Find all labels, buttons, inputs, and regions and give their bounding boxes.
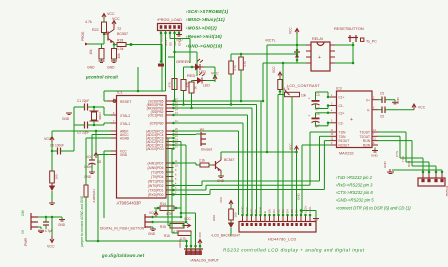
ground prog_load [176,35,182,37]
crystal Q1 4MHz [92,112,97,120]
svg-text:D0: D0 [168,42,172,46]
svg-text:24V: 24V [21,209,25,216]
SECTION: rs232 connector [383,161,448,197]
svg-text:VCC: VCC [47,245,55,249]
right pins T1OUT T2OUT R1IN R2IN [372,131,378,133]
resistor R10 4.7k [278,80,282,90]
svg-text:VCC: VCC [418,106,426,110]
svg-text:GND: GND [176,38,184,42]
svg-text:10k: 10k [301,94,307,98]
svg-text:VCC: VCC [219,196,223,203]
svg-text:›GND->GND(19): ›GND->GND(19) [186,43,223,48]
svg-text:VCC: VCC [44,137,52,141]
wire R1 bottom to bus [174,90,176,102]
svg-text:D2: D2 [277,209,281,213]
svg-text:GND: GND [148,232,156,236]
capacitor C10 4.7uF [43,222,49,225]
svg-text:›Reset->Init(16): ›Reset->Init(16) [186,34,222,39]
svg-text:R1OUT: R1OUT [339,139,350,143]
svg-text:+: + [308,97,310,101]
ground max232 pin15 [374,148,376,151]
wire R1IN to connector rxd [378,140,412,142]
svg-text:TXD: TXD [401,155,405,162]
svg-text:GND: GND [107,66,115,70]
svg-text:10k: 10k [117,53,121,59]
SECTION: bottom-left power [21,125,187,249]
svg-text:VCC: VCC [289,143,293,150]
svg-text:›RCTL: ›RCTL [265,39,276,43]
resistor R16 4.7k [178,231,191,236]
switch S1 reset button [348,35,358,42]
SECTION: prog_load header [157,18,197,101]
wire r14 net jog to analog [181,212,196,214]
ground push button [151,226,153,228]
svg-text:RESET: RESET [120,100,131,104]
wire TXD from mcu to T1IN [174,189,207,191]
svg-text:RED: RED [187,73,196,78]
svg-text:(INT0)PD2: (INT0)PD2 [148,184,164,188]
wire button to relai right [352,42,354,45]
svg-text:(AIN0)PD6: (AIN0)PD6 [148,166,164,170]
LED green D1 [192,64,204,70]
svg-text:+: + [350,117,353,123]
svg-text:BC557: BC557 [117,32,128,36]
wire VCC1 to R22 [103,19,105,22]
connector X2 PWR [31,213,38,230]
svg-text:R15: R15 [160,225,166,229]
wire 0v to gnd [0,0,1,1]
svg-text:1k: 1k [194,86,198,90]
svg-text:LCD_CONTRAST: LCD_CONTRAST [287,84,320,88]
wire R15 left to pc [168,225,170,227]
svg-text:VCC: VCC [198,231,202,238]
ground under R27 [111,61,117,63]
svg-text:GND: GND [120,153,128,157]
resistor R3 470 [189,82,194,93]
left pins C1+ C1- C2+ C2- [331,96,337,98]
svg-text:GREEN: GREEN [176,59,190,64]
wire rctl [267,44,297,46]
svg-text:›SCK->STROBE(1): ›SCK->STROBE(1) [186,9,229,14]
svg-text:R2OUT: R2OUT [339,144,350,148]
ground bc547 [220,173,222,176]
svg-text:›MOSI->D0(2): ›MOSI->D0(2) [186,25,217,30]
svg-text:GND: GND [396,97,400,105]
resistor R12 pull-up [239,57,244,70]
svg-text:C5: C5 [380,92,384,96]
svg-text:GND: GND [371,154,379,158]
wire jp1 nets [174,134,197,136]
svg-text:180: 180 [55,174,59,179]
wire PB0 corner [174,122,244,124]
IC IC1 AT90S4433P body [117,96,167,199]
svg-text:D4: D4 [286,209,290,213]
supply VCC relai [295,29,299,36]
SECTION: green annotation list top [186,9,229,48]
pin XTAL2 [111,114,117,116]
wire caps to gnd [74,106,85,108]
SECTION: captions [101,175,411,258]
capacitor C9 100nF [58,148,61,155]
SECTION: crystal [62,99,111,135]
pin stubs [423,172,442,178]
wire pin5 to gnd [178,31,180,35]
ground avcc [89,172,95,174]
jumper JP2 agnd [86,137,111,139]
svg-text:C1+: C1+ [339,96,345,100]
svg-text:GND: GND [62,117,70,121]
svg-text:0V: 0V [21,229,25,234]
wire pin4 init down to pb5 row [174,31,176,102]
svg-text:D5: D5 [290,209,294,213]
capacitor C3 1uF electrolytic [312,100,320,102]
svg-text:(TXD)PD1: (TXD)PD1 [148,189,163,193]
supply VCC arrow 2 [112,21,116,28]
connector LCD1 HD44780 body [239,222,316,233]
svg-text:JP1: JP1 [199,128,205,132]
svg-text:C2-: C2- [339,121,344,125]
wire PB1 corner [174,114,248,116]
svg-text:VCC: VCC [272,66,276,73]
pin VCC [111,150,117,152]
wire pot left down to lcd [278,94,280,96]
svg-text:470: 470 [168,82,172,87]
wire collector to rctl [220,152,222,157]
resistor R19 180 [50,171,55,183]
wire RXD to mcu from R1OUT [174,194,211,196]
svg-text:+: + [318,55,321,61]
svg-text:LED+: LED+ [304,205,308,213]
supply VCC down arrow [50,236,54,243]
resistor R22 4.7k [102,22,107,33]
wire bottom gnd from pwr pin3 [38,226,41,228]
wire PC5 corner [174,130,239,132]
svg-text:R28: R28 [117,39,123,43]
resistor R27 10k below emitter [112,49,117,60]
ground under R26 [99,61,105,63]
svg-text:Unused: Unused [201,148,212,152]
wire R3 bottom to bus [191,93,193,108]
ground max232 c5 [392,102,398,104]
svg-text:4.7k: 4.7k [85,20,92,24]
svg-text:PWR: PWR [24,238,28,246]
svg-text:GND: GND [383,161,387,169]
wire relai left pin2 long down [263,62,306,64]
svg-text:V-: V- [367,108,370,112]
right pins V+ V- [372,99,378,101]
svg-text:C2+: C2+ [339,111,345,115]
svg-text:R1IN: R1IN [363,139,371,143]
SECTION: max232 [174,87,437,216]
wire xtal1 net [88,124,105,126]
svg-text:C3: C3 [316,93,320,97]
supply VCC mid-left with 100nF [50,137,54,144]
svg-text:(RXD)PD0: (RXD)PD0 [148,193,164,197]
svg-text:›CTS->RS232 pin 8: ›CTS->RS232 pin 8 [336,190,373,195]
svg-text:LED: LED [199,70,206,74]
svg-text:10k: 10k [89,49,93,55]
wire PB4 corner [256,105,258,216]
SECTION: mcu [107,91,178,206]
svg-text:›MISO->Busy(11): ›MISO->Busy(11) [186,17,225,22]
svg-text:GND: GND [58,223,66,227]
resistor R14 4.7k [160,206,174,211]
pin XTAL1 [111,122,117,124]
svg-text:GND: GND [217,179,225,183]
svg-text:VCC: VCC [184,217,191,221]
svg-text:(T0)PD4: (T0)PD4 [151,175,164,179]
IC IC2 RELAI optocoupler [311,42,330,71]
resistor R20 180 backlight [229,209,234,220]
pin AREF [111,130,117,132]
transistor T2 BC557 [107,32,109,41]
wire PB5 corner [260,101,262,215]
svg-text:BC547: BC547 [224,158,234,162]
ground rs232 [387,169,394,174]
svg-text:VCC: VCC [112,17,120,21]
wire pin1 strobe down to pad [160,31,162,63]
svg-text:(INT1)PD3: (INT1)PD3 [148,180,164,184]
svg-text:RELAI: RELAI [312,37,323,41]
SECTION: analog / buttons [100,128,268,263]
wire collector net to lcd d6 [267,151,297,153]
junction dots [422,171,425,174]
svg-text:AGND: AGND [178,238,182,248]
wire aref net long [52,130,111,132]
svg-text:GND: GND [87,66,95,70]
svg-text:go.digitaldown.net: go.digitaldown.net [101,253,145,258]
svg-text:C1-: C1- [339,104,344,108]
capacitor C1 22pF [85,104,88,111]
ground power led [49,203,55,205]
pin pads and stubs [243,215,311,222]
SECTION: top-left transistor circuit [81,12,166,101]
wire down to reset net [161,45,163,92]
svg-text:RESETBUTTON: RESETBUTTON [334,26,364,31]
wire R22 to base node [103,33,105,37]
wire stub junction [137,67,139,91]
ground pwr [59,220,65,222]
resistor R11 pull-up [229,61,234,74]
svg-text:VCC: VCC [289,27,293,34]
wire vcc down left pins [296,34,298,63]
bus wire PB5 [174,100,264,102]
wire T1OUT to connector txd [378,131,406,133]
wire xtal2 net [88,106,105,108]
svg-text:R16: R16 [164,234,170,238]
svg-text:AT90S4433P: AT90S4433P [117,201,142,206]
wire mcu vcc left [104,150,111,152]
wire pin2 busy down to reset row [165,31,167,92]
connector X1 RS232 body [418,178,445,186]
svg-text:LED-: LED- [308,206,312,213]
resistor R18 2.2k [200,163,209,167]
svg-text:XTAL1: XTAL1 [120,122,130,126]
svg-text:GND: GND [84,175,92,179]
vertical nets to PC pins [180,142,182,218]
potentiometer R9 10k trimmer [285,92,300,96]
input marker left [88,43,102,45]
svg-text:1.0k: 1.0k [117,47,124,51]
svg-text:›GND->RS232 pin 5: ›GND->RS232 pin 5 [336,198,374,203]
wire reset horizontal [104,90,166,92]
wire collector node [113,44,115,49]
svg-text:›LCD_BACKLIGHT: ›LCD_BACKLIGHT [211,234,240,238]
svg-text:C9 100nF: C9 100nF [50,144,64,148]
bus wire PB3 [174,107,253,109]
resistor R15 4.7k [170,224,184,229]
wire pin3 d0 down then to LED row [169,31,171,39]
svg-text:µcontrol circuit: µcontrol circuit [85,75,118,80]
svg-text:GND: GND [297,193,301,201]
svg-text:GND: GND [212,215,216,221]
node base junction [103,33,106,36]
bus wire PB4 [174,104,257,106]
svg-text:R2IN: R2IN [363,144,371,148]
resistor R26 10k below base [99,49,104,60]
svg-text:V+: V+ [366,98,370,102]
pin RESET [107,100,117,102]
svg-text:jumper to connect AGND and GND: jumper to connect AGND and GND [80,195,84,248]
pins right [330,45,335,63]
svg-text:›ANALOG_INPUT: ›ANALOG_INPUT [190,259,220,263]
pads To_PC [361,38,364,41]
capacitor C2 22pF [85,122,88,129]
wire pullup tops to vcc rail [230,54,232,61]
SECTION: lcd connector [174,101,320,242]
SECTION: contrast [272,66,320,215]
svg-text:+: + [308,114,310,118]
svg-text:RXD: RXD [407,160,411,167]
svg-text:4MHz: 4MHz [98,112,102,120]
svg-text:(OC1)PB1: (OC1)PB1 [148,114,163,118]
svg-text:RS232 controlled LCD display +: RS232 controlled LCD display + analog an… [223,248,365,253]
wire 24v to cap [38,216,62,218]
svg-text:D1: D1 [272,209,276,213]
wire wiper down to LCD [291,97,293,215]
svg-text:(T1)PD5: (T1)PD5 [151,171,164,175]
svg-text:(AIN1)PD7: (AIN1)PD7 [148,162,164,166]
wire PB3 corner [251,108,253,215]
wire R2OUT down to lcd [302,144,331,146]
connector X3 ANALOG_INPUT [184,249,203,255]
svg-text:MAX232: MAX232 [339,152,354,156]
SECTION: LEDs cluster [168,53,298,110]
wire mcu gnd down to rail [98,154,111,156]
svg-text:HD44780_LCD: HD44780_LCD [268,238,297,242]
LED D5 backlight [230,220,232,223]
LED D4 power [49,183,55,186]
svg-text:JUMPER1: JUMPER1 [92,189,96,203]
wire LED1 to VCC [204,66,215,68]
resistor R2 470 [181,80,186,91]
svg-text:IC1: IC1 [117,91,123,95]
svg-text:›RxD->RS232 pin 3: ›RxD->RS232 pin 3 [336,183,373,188]
junction dots on pins [241,214,311,217]
resistor R1 470 [172,79,177,90]
diode D3 [294,51,300,53]
wire R3 top to LED2 [192,80,195,82]
svg-text:LED: LED [203,84,210,88]
svg-text:›TxD->RS232 pin 2: ›TxD->RS232 pin 2 [336,175,373,180]
svg-text:D0: D0 [268,209,272,213]
wire R1 top from left [168,56,175,58]
svg-text:E: E [263,211,267,213]
pin GND [111,154,117,156]
svg-text:To_PC: To_PC [366,40,377,44]
ground crystal [66,113,72,115]
supply VCC max232 [412,104,416,110]
svg-text:4.7k: 4.7k [243,61,247,67]
capacitor C8 100nF avcc [92,134,111,136]
svg-text:T2: T2 [117,27,121,31]
wire bottom rail [86,240,187,242]
right pins PB5..PB0 [113,98,178,195]
IC IC3 MAX232 body [337,91,373,148]
capacitor C4 1uF electrolytic [312,118,320,120]
supply VCC arrow 1 [102,14,106,21]
svg-text:›connect DTR (4) to DSR (6) an: ›connect DTR (4) to DSR (6) and CD (1) [336,205,411,210]
svg-text:4.7k: 4.7k [166,212,172,216]
svg-text:XTAL2: XTAL2 [120,114,130,118]
wire R2 top to LED1 [184,66,193,68]
svg-text:VCC: VCC [107,12,115,16]
wire R28 to right [126,44,162,46]
capacitor C5 [378,99,382,101]
svg-text:›PROG_LOAD: ›PROG_LOAD [157,18,182,22]
svg-text:R22: R22 [92,28,99,32]
pad below pin1 [158,64,164,67]
svg-text:C1 22pF: C1 22pF [77,99,89,103]
LED red D2 [194,78,206,84]
svg-text:IC3: IC3 [336,87,342,91]
wire T2OUT cts to connector [378,135,400,137]
svg-text:PROG: PROG [81,31,85,41]
svg-text:(ADC0)PC0: (ADC0)PC0 [146,147,164,151]
transistor Q3 BC547 lcd e [215,161,217,169]
pins left [306,45,311,63]
wire pushbutton nets [151,216,181,218]
rotated pin labels [241,205,313,213]
resistor R28 1k horizontal [117,43,126,47]
wires analog pins up [186,241,188,249]
wire CTS from mcu pd2 to T2IN [174,185,203,187]
supply VCC r15 right arrow [182,224,185,227]
svg-text:CTS: CTS [395,151,399,157]
svg-text:R14: R14 [160,202,166,206]
pin AGND [111,137,117,139]
wire gnd to pin [392,169,442,171]
right pins PC5..PC0 [166,130,174,132]
SECTION: relai + reset button [262,26,377,215]
svg-text:(ICP)PB0: (ICP)PB0 [150,122,164,126]
pin AVCC [111,134,117,136]
svg-text:C6: C6 [380,115,384,119]
left pins T1IN T2IN R1OUT R2OUT [331,131,337,133]
junction dots analog [185,245,188,248]
wire LED2 to VCC [206,80,215,82]
svg-text:DIGITAL_IN_PUSH_BUTTON: DIGITAL_IN_PUSH_BUTTON [100,227,145,231]
svg-text:2.2k: 2.2k [199,159,205,163]
right pins PD7..PD0 [166,162,174,164]
svg-text:180: 180 [234,212,238,217]
svg-text:4.7k: 4.7k [233,65,237,71]
wire R2 bottom to bus [183,91,185,105]
svg-text:AGND: AGND [120,137,130,141]
svg-text:D3: D3 [281,209,285,213]
capacitor C6 [378,109,382,111]
ground lcd right [301,210,316,212]
